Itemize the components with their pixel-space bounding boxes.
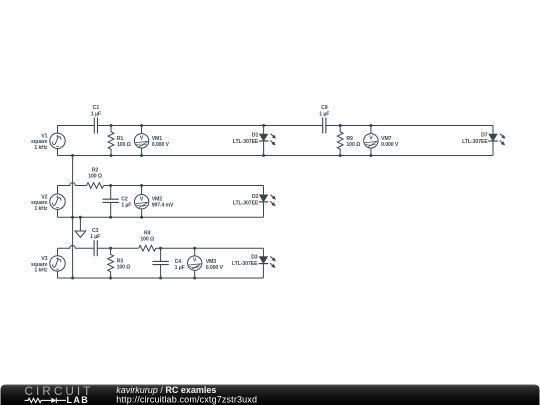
label VM7 reading [381,136,399,148]
label V2 value [31,194,48,212]
svg-text:1 kHz: 1 kHz [34,268,48,274]
svg-text:C4: C4 [175,259,182,265]
junction row1 top x=263.6 [262,124,265,127]
svg-text:V: V [140,196,144,202]
svg-text:D3: D3 [251,255,258,261]
voltmeter VM3 [188,248,202,278]
footer bar [1,385,540,405]
label C2 value [121,196,131,208]
svg-text:1 µF: 1 µF [91,111,101,117]
wire row3 top: R4 to D3 [156,247,264,249]
label D2 part number [233,194,259,207]
svg-text:100 Ω: 100 Ω [140,237,154,243]
wire row3 top: C3 to R4 [97,247,138,249]
wire row1 bottom net [58,155,494,157]
svg-text:1 µF: 1 µF [121,203,131,209]
label C3 value [90,228,100,240]
svg-text:C9: C9 [321,105,328,111]
svg-text:1 kHz: 1 kHz [34,145,48,151]
svg-text:1 µF: 1 µF [319,111,329,117]
resistor R3 (100 ohm) [108,248,114,278]
junction row2 bottom x=110.7 [109,216,112,219]
svg-text:1 kHz: 1 kHz [34,206,48,212]
junction row1 bottom x=72.6 [71,154,74,157]
junction row1 top x=340.2 [339,124,342,127]
junction row1 top x=111 [110,124,113,127]
svg-text:C3: C3 [92,228,99,234]
junction row3 top x=194.7 [193,247,196,250]
CircuitLab logo: diode glyph [51,398,66,403]
svg-text:V: V [193,258,197,264]
wire row3 top: V3 to C3 (hop over vertical) [58,245,95,248]
capacitor C4 (1 uF, shunt) [152,248,168,278]
LED D7 (LTL-307EE) [488,126,505,156]
svg-text:0.000 V: 0.000 V [381,142,399,148]
label R1 value [117,136,131,148]
label D7 part number [462,133,488,146]
svg-text:LTL-307EE: LTL-307EE [232,261,258,267]
junction row2 top x=141.6 [140,184,143,187]
voltmeter VM2 [134,186,148,218]
label C1 value [91,105,101,117]
svg-text:V: V [369,135,373,141]
svg-text:VM3: VM3 [206,259,217,265]
resistor R1 (100 ohm) [108,126,114,156]
voltage source V3 (square 1 kHz) [50,256,65,271]
junction row3 bottom x=160.6 [159,277,162,280]
wire V2 top stub / left edge row 2 [57,186,59,195]
svg-text:kavirkurup / RC examles: kavirkurup / RC examles [116,385,216,395]
LED D1 (LTL-307EE) [259,126,276,156]
capacitor C9 (1 uF, series) [323,118,326,134]
junction row3 bottom x=194.7 [193,277,196,280]
wire ground stub [79,217,81,231]
CircuitLab logo: resistor glyph [25,398,52,402]
wire V3 top stub / left edge row 3 [57,248,59,256]
svg-text:C1: C1 [93,105,100,111]
ground [75,231,86,237]
wire row2 top: V2 to R2 (hop over vertical) [58,183,87,186]
capacitor C3 (1 uF, series) [94,240,97,256]
junction row2 top x=110.7 [109,184,112,187]
resistor R9 (100 ohm) [337,126,343,156]
svg-text:C2: C2 [121,196,128,202]
junction row3 top x=160.6 [159,247,162,250]
wire row3 bottom net [58,277,264,279]
svg-text:http://circuitlab.com/cxtg7zst: http://circuitlab.com/cxtg7zstr3uxd [116,394,257,404]
voltmeter VM7 [364,126,378,156]
junction row1 bottom x=370.9 [369,154,372,157]
svg-text:LTL-307EE: LTL-307EE [233,139,259,145]
label V1 value [31,133,48,151]
junction row1 bottom x=263.6 [262,154,265,157]
label C4 value [175,259,185,271]
svg-text:997.4 mV: 997.4 mV [152,203,174,209]
label D1 part number [233,133,259,146]
svg-text:1 µF: 1 µF [90,234,100,240]
junction row2 bottom x=80.4 [79,216,82,219]
svg-text:1 µF: 1 µF [175,265,185,271]
svg-text:0.000 V: 0.000 V [206,265,224,271]
resistor R4 (100 ohm) [139,245,156,251]
junction row1 bottom x=340.2 [339,154,342,157]
junction vertical/row3 bottom [71,277,74,280]
LED D2 (LTL-307EE) [259,186,276,218]
wire row1 top: C9 to D7 [326,125,493,127]
svg-text:V: V [140,135,144,141]
label R3 value [117,259,131,271]
junction row1 top x=370.9 [369,124,372,127]
wire: row1 bottom down to row3 bottom (ground net) [72,156,74,279]
voltage source V2 (square 1 kHz) [50,194,65,209]
svg-text:D2: D2 [252,194,259,200]
svg-text:100 Ω: 100 Ω [117,265,131,271]
wire V1 top stub / left edge row 1 [57,126,59,134]
LED D3 (LTL-307EE) [259,248,276,278]
label V3 value [31,256,48,274]
junction row3 top x=110.6 [109,247,112,250]
label D3 part number [232,255,258,268]
wire V3 bottom stub [57,271,59,278]
junction row1 top x=141.6 [140,124,143,127]
label R4 value [140,231,154,243]
label VM3 reading [206,259,224,271]
capacitor C1 (1 uF, series) [94,118,97,134]
svg-text:LTL-307EE: LTL-307EE [233,200,259,206]
junction row2 bottom x=141.6 [140,216,143,219]
svg-text:VM2: VM2 [152,197,163,203]
svg-text:LAB: LAB [67,395,90,405]
svg-text:0.000 V: 0.000 V [152,142,170,148]
label C9 value [319,105,329,117]
svg-text:D7: D7 [481,133,488,139]
label R9 value [346,136,360,148]
svg-text:100 Ω: 100 Ω [88,174,102,180]
capacitor C2 (1 uF, shunt) [103,186,119,218]
svg-text:D1: D1 [252,133,259,139]
label VM1 reading [152,136,170,148]
voltmeter VM1 [134,126,148,156]
label R2 value [88,168,102,180]
svg-text:100 Ω: 100 Ω [117,142,131,148]
junction row1 bottom x=141.6 [140,154,143,157]
wire row1 top: C1 to C9 [98,125,323,127]
wire V1 bottom stub [57,149,59,156]
resistor R2 (100 ohm) [87,183,104,189]
voltage source V1 (square 1 kHz) [50,133,65,148]
wire row1 top: V1 to C1 [58,125,95,127]
junction row1 bottom x=111 [110,154,113,157]
svg-text:100 Ω: 100 Ω [346,142,360,148]
svg-text:LTL-307EE: LTL-307EE [462,139,488,145]
wire V2 bottom stub [57,209,59,217]
label VM2 reading [152,197,174,209]
junction row3 bottom x=110.6 [109,277,112,280]
wire row2 bottom net [58,216,264,218]
junction vertical/row2 bottom [71,216,74,219]
wire row2 top: R2 to D2 [104,185,264,187]
